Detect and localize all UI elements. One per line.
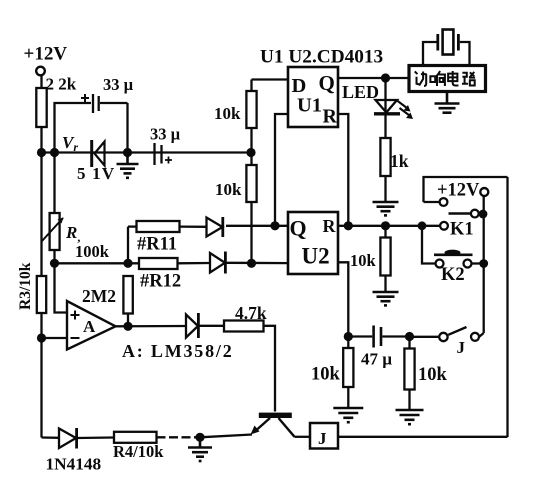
svg-text:A: LM358/2: A: LM358/2 [122, 341, 234, 361]
capacitor 33u (coupling) [155, 143, 173, 165]
transistor Q1 (driver) [251, 413, 295, 437]
node label 电 (drawn strokes) [448, 71, 458, 86]
node junction dot R1 top [50, 148, 59, 157]
node junction dot K2 on +12V rail [479, 259, 488, 268]
node junction dot K1 on +12V rail [479, 210, 488, 219]
sounder circuit box 讯响电路 [409, 66, 486, 92]
svg-text:+12V: +12V [24, 44, 68, 65]
svg-text:R4/10k: R4/10k [113, 442, 164, 461]
node junction dot zener cathode [123, 148, 132, 157]
resistor 10k (timing left) [343, 337, 353, 408]
node junction dot minus-input [37, 333, 46, 342]
svg-text:Q: Q [290, 216, 307, 241]
wire left column upper [40, 127, 42, 276]
LED D1 [374, 78, 413, 119]
resistor R3 [37, 276, 46, 313]
resistor #R12 [139, 258, 210, 269]
node junction dot K2 branch [418, 221, 427, 230]
svg-text:47 µ: 47 µ [361, 350, 392, 369]
resistor 2M2 [123, 276, 132, 326]
svg-text:10k: 10k [311, 365, 341, 385]
relay contact K2 closed [434, 250, 480, 268]
resistor 10k (lower divider) [246, 153, 256, 264]
svg-text:R: R [323, 106, 338, 128]
resistor 2.2k [36, 75, 46, 127]
ground at emitter junction [188, 437, 212, 461]
svg-text:10k: 10k [214, 104, 241, 123]
resistor 10k (R rail pulldown) [380, 226, 390, 291]
capacitor 33u feedback loop wire [55, 103, 92, 153]
relay contact K1 upper fixed contact [424, 198, 448, 206]
wire U1 Q output [338, 77, 409, 79]
wire top-right rail [424, 177, 508, 202]
svg-text:J: J [318, 429, 327, 448]
svg-text:K1: K1 [450, 220, 474, 240]
svg-text:Q: Q [319, 71, 335, 95]
svg-text:33 µ: 33 µ [103, 75, 134, 94]
wire op-amp output [116, 325, 187, 328]
diode 1N4148 [59, 428, 114, 449]
ground under 1k [373, 202, 399, 215]
node junction dot emitter ground [195, 433, 204, 442]
svg-text:U2: U2 [302, 244, 330, 269]
resistor 1k [380, 115, 390, 201]
node junction dot divider bottom [247, 259, 256, 268]
diode D-R11 [207, 217, 223, 237]
wire minus input [42, 337, 68, 339]
ground at zener junction [117, 153, 139, 178]
diode D-R12 [210, 252, 288, 274]
wire U2 Q rail left [226, 225, 288, 227]
svg-text:U1: U1 [297, 95, 322, 117]
node junction dot 47u right [405, 332, 414, 341]
capacitor 47u [348, 326, 409, 348]
svg-text:#R11: #R11 [137, 235, 177, 255]
svg-text:10k: 10k [350, 251, 377, 270]
node junction dot op-amp output [123, 322, 132, 331]
ground under timing-right 10k [396, 410, 424, 424]
node label 响 (drawn strokes) [430, 71, 445, 86]
wire plus input [55, 263, 68, 312]
svg-text:2 2k: 2 2k [46, 75, 77, 94]
wire Vr rail [42, 151, 252, 153]
wire sense rail [55, 262, 140, 264]
wire +12V right rail down [483, 196, 485, 264]
node junction dot left-rail [37, 148, 46, 157]
node junction dot U1 lower pin to Q rail [270, 221, 279, 230]
wire bottom right rail [338, 436, 508, 438]
svg-text:Vr: Vr [62, 133, 78, 154]
wire U2 lower right pin [338, 262, 348, 336]
node junction dot 47u left [344, 332, 353, 341]
wire left column lower [40, 313, 42, 438]
ground under sounder box [435, 92, 460, 113]
node junction dot 10k divider [246, 148, 255, 157]
IC U2 CD4013 flip-flop box [288, 212, 338, 274]
svg-text:10k: 10k [418, 365, 448, 385]
wire K2 branch [422, 226, 435, 264]
wire right rail [506, 177, 508, 437]
resistor 10k (upper divider) [246, 80, 256, 153]
node junction dot 10k pulldown [381, 221, 390, 230]
svg-text:33 µ: 33 µ [150, 125, 181, 144]
wire U1 D input [252, 78, 289, 80]
wire collector to relay box [295, 436, 311, 438]
resistor 10k (timing right) [404, 337, 414, 410]
resistor R4 [114, 432, 196, 443]
svg-text:5 1V: 5 1V [77, 164, 115, 183]
op-amp A LM358 [67, 301, 116, 350]
svg-text:R,: R, [65, 223, 80, 244]
relay contact K1 lower fixed contact circle [440, 222, 448, 230]
relay contact K1 arm [449, 210, 479, 218]
node label 讯 (drawn strokes) [415, 71, 427, 86]
node label 路 (drawn strokes) [462, 72, 475, 86]
svg-text:1N4148: 1N4148 [46, 455, 102, 474]
svg-text:10k: 10k [215, 180, 242, 199]
svg-text:100k: 100k [75, 242, 110, 261]
relay J box [310, 423, 338, 449]
resistor #R11 [128, 221, 207, 232]
svg-text:A: A [83, 317, 96, 336]
resistor 4.7k [224, 321, 275, 412]
node junction dot R1 bottom [50, 259, 59, 268]
capacitor 33u (top) [81, 94, 128, 153]
svg-text:K2: K2 [441, 265, 465, 285]
svg-text:2M2: 2M2 [82, 286, 116, 306]
node junction dot U1R-U2R [344, 221, 353, 230]
svg-text:R3/10k: R3/10k [17, 262, 34, 310]
terminal circle +12V right [480, 188, 488, 196]
terminal circle +12V [36, 67, 45, 76]
diode output series [186, 313, 224, 338]
node junction dot LED branch [381, 73, 390, 82]
wire R11 branch vertical [127, 227, 129, 264]
wire U1 R pin routing [338, 114, 348, 226]
svg-text:J: J [457, 338, 466, 357]
ground under R-rail 10k [373, 292, 399, 305]
svg-text:U1 U2.CD4013: U1 U2.CD4013 [260, 47, 383, 68]
wire U2 R rail right [338, 225, 440, 227]
wire bottom left rail [42, 436, 60, 439]
potentiometer R1 [42, 153, 64, 264]
ground under timing-left 10k [333, 408, 363, 422]
wire +12V rail to switch J [483, 264, 485, 334]
switch J [410, 327, 484, 341]
wire U1 left lower pin routing [275, 114, 288, 226]
svg-text:R: R [323, 216, 337, 236]
svg-text:4.7k: 4.7k [235, 303, 267, 323]
IC U1 CD4013 flip-flop box [288, 67, 338, 127]
svg-text:1k: 1k [390, 151, 409, 171]
diode zener 5.1V [92, 140, 105, 167]
node junction dot 2M2 top [123, 259, 132, 268]
svg-text:#R12: #R12 [140, 272, 181, 292]
crystal buzzer element [423, 30, 470, 66]
wire emitter link [200, 435, 252, 438]
